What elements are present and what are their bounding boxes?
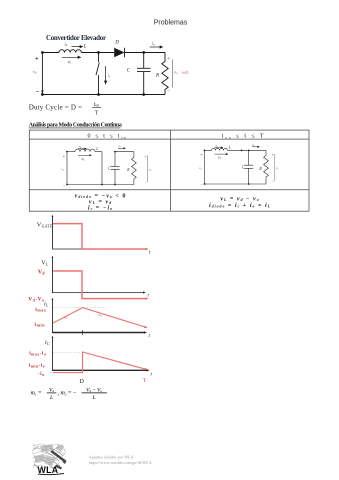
svg-text:L: L (91, 395, 95, 401)
svg-text:iL: iL (44, 301, 49, 308)
svg-text:R: R (155, 74, 159, 79)
svg-text:vL: vL (68, 59, 72, 65)
svg-text:Duty Cycle = D =: Duty Cycle = D = (29, 104, 82, 112)
svg-text:R: R (126, 168, 130, 172)
svg-text:Problemas: Problemas (154, 20, 188, 27)
svg-text:https://www.wuolah.com/ga-fil/: https://www.wuolah.com/ga-fil/WLA (89, 460, 152, 465)
svg-text:L: L (95, 147, 98, 151)
svg-text:T: T (95, 111, 99, 117)
svg-text:−: − (272, 180, 274, 184)
svg-text:vd: vd (199, 166, 203, 171)
svg-text:-io: -io (38, 371, 45, 377)
svg-text:+: + (145, 155, 147, 159)
svg-text:+: + (35, 56, 39, 63)
svg-text:L: L (228, 146, 231, 150)
svg-text:vd: vd (33, 69, 37, 75)
svg-text:io: io (119, 144, 122, 149)
svg-text:D: D (114, 41, 119, 46)
svg-text:Análisis para Modo Conducción: Análisis para Modo Conducción Continua (29, 122, 122, 128)
svg-text:iL: iL (65, 41, 68, 47)
svg-text:−: − (200, 182, 203, 187)
svg-text:Vd: Vd (38, 269, 45, 276)
svg-text:−: − (63, 182, 66, 187)
svg-text:WLA: WLA (38, 465, 59, 475)
svg-text:iC: iC (45, 339, 50, 346)
svg-text:m1 =: m1 = (31, 390, 43, 396)
svg-text:L: L (49, 395, 53, 401)
svg-text:vo(t): vo(t) (182, 70, 190, 76)
svg-text:t: t (149, 334, 151, 339)
svg-text:t: t (149, 251, 151, 256)
svg-text:+: + (272, 153, 274, 157)
svg-text:is: is (108, 73, 111, 79)
svg-text:vo: vo (174, 70, 178, 76)
svg-text:T: T (143, 378, 147, 384)
svg-text:R: R (258, 167, 262, 171)
svg-text:t: t (148, 294, 150, 299)
svg-text:Vd-Vo: Vd-Vo (28, 297, 44, 303)
svg-text:vL = vd − vo: vL = vd − vo (220, 196, 259, 202)
svg-text:VGATE: VGATE (37, 221, 53, 228)
svg-text:−: − (145, 181, 147, 185)
svg-text:, m2 = −: , m2 = − (58, 390, 77, 396)
svg-text:idiodo = ic + io = iL: idiodo = ic + io = iL (209, 203, 271, 209)
svg-text:−: − (36, 89, 40, 96)
svg-text:+: + (167, 57, 170, 62)
svg-text:imin-io: imin-io (29, 362, 45, 368)
svg-text:L: L (83, 44, 87, 49)
svg-text:0 ≤ t ≤ ton: 0 ≤ t ≤ ton (88, 134, 128, 140)
svg-text:−: − (167, 90, 170, 95)
svg-text:vo: vo (276, 166, 279, 171)
svg-text:vL: vL (218, 156, 222, 161)
svg-text:imax-io: imax-io (29, 351, 46, 357)
svg-text:vo: vo (149, 168, 152, 173)
svg-text:imax: imax (35, 307, 47, 313)
svg-text:vd: vd (62, 167, 66, 172)
svg-text:imin: imin (35, 322, 46, 328)
svg-text:+: + (200, 152, 203, 157)
svg-text:VL: VL (41, 260, 48, 267)
svg-text:io: io (152, 41, 155, 47)
svg-text:+: + (63, 153, 66, 158)
svg-text:C: C (242, 165, 245, 169)
svg-text:io: io (253, 142, 256, 147)
svg-text:vL: vL (82, 157, 86, 162)
svg-text:ton ≤ t ≤ T: ton ≤ t ≤ T (222, 134, 266, 140)
svg-text:Vd: Vd (49, 387, 54, 393)
svg-text:D: D (80, 379, 85, 385)
svg-text:Convertidor Elevador: Convertidor Elevador (46, 35, 106, 42)
svg-text:ic = −io: ic = −io (88, 205, 113, 211)
svg-text:C: C (127, 69, 131, 74)
svg-text:C: C (108, 167, 111, 171)
svg-text:t: t (151, 373, 153, 378)
svg-text:Vd − Vo: Vd − Vo (86, 387, 102, 393)
svg-text:ton: ton (94, 102, 99, 108)
